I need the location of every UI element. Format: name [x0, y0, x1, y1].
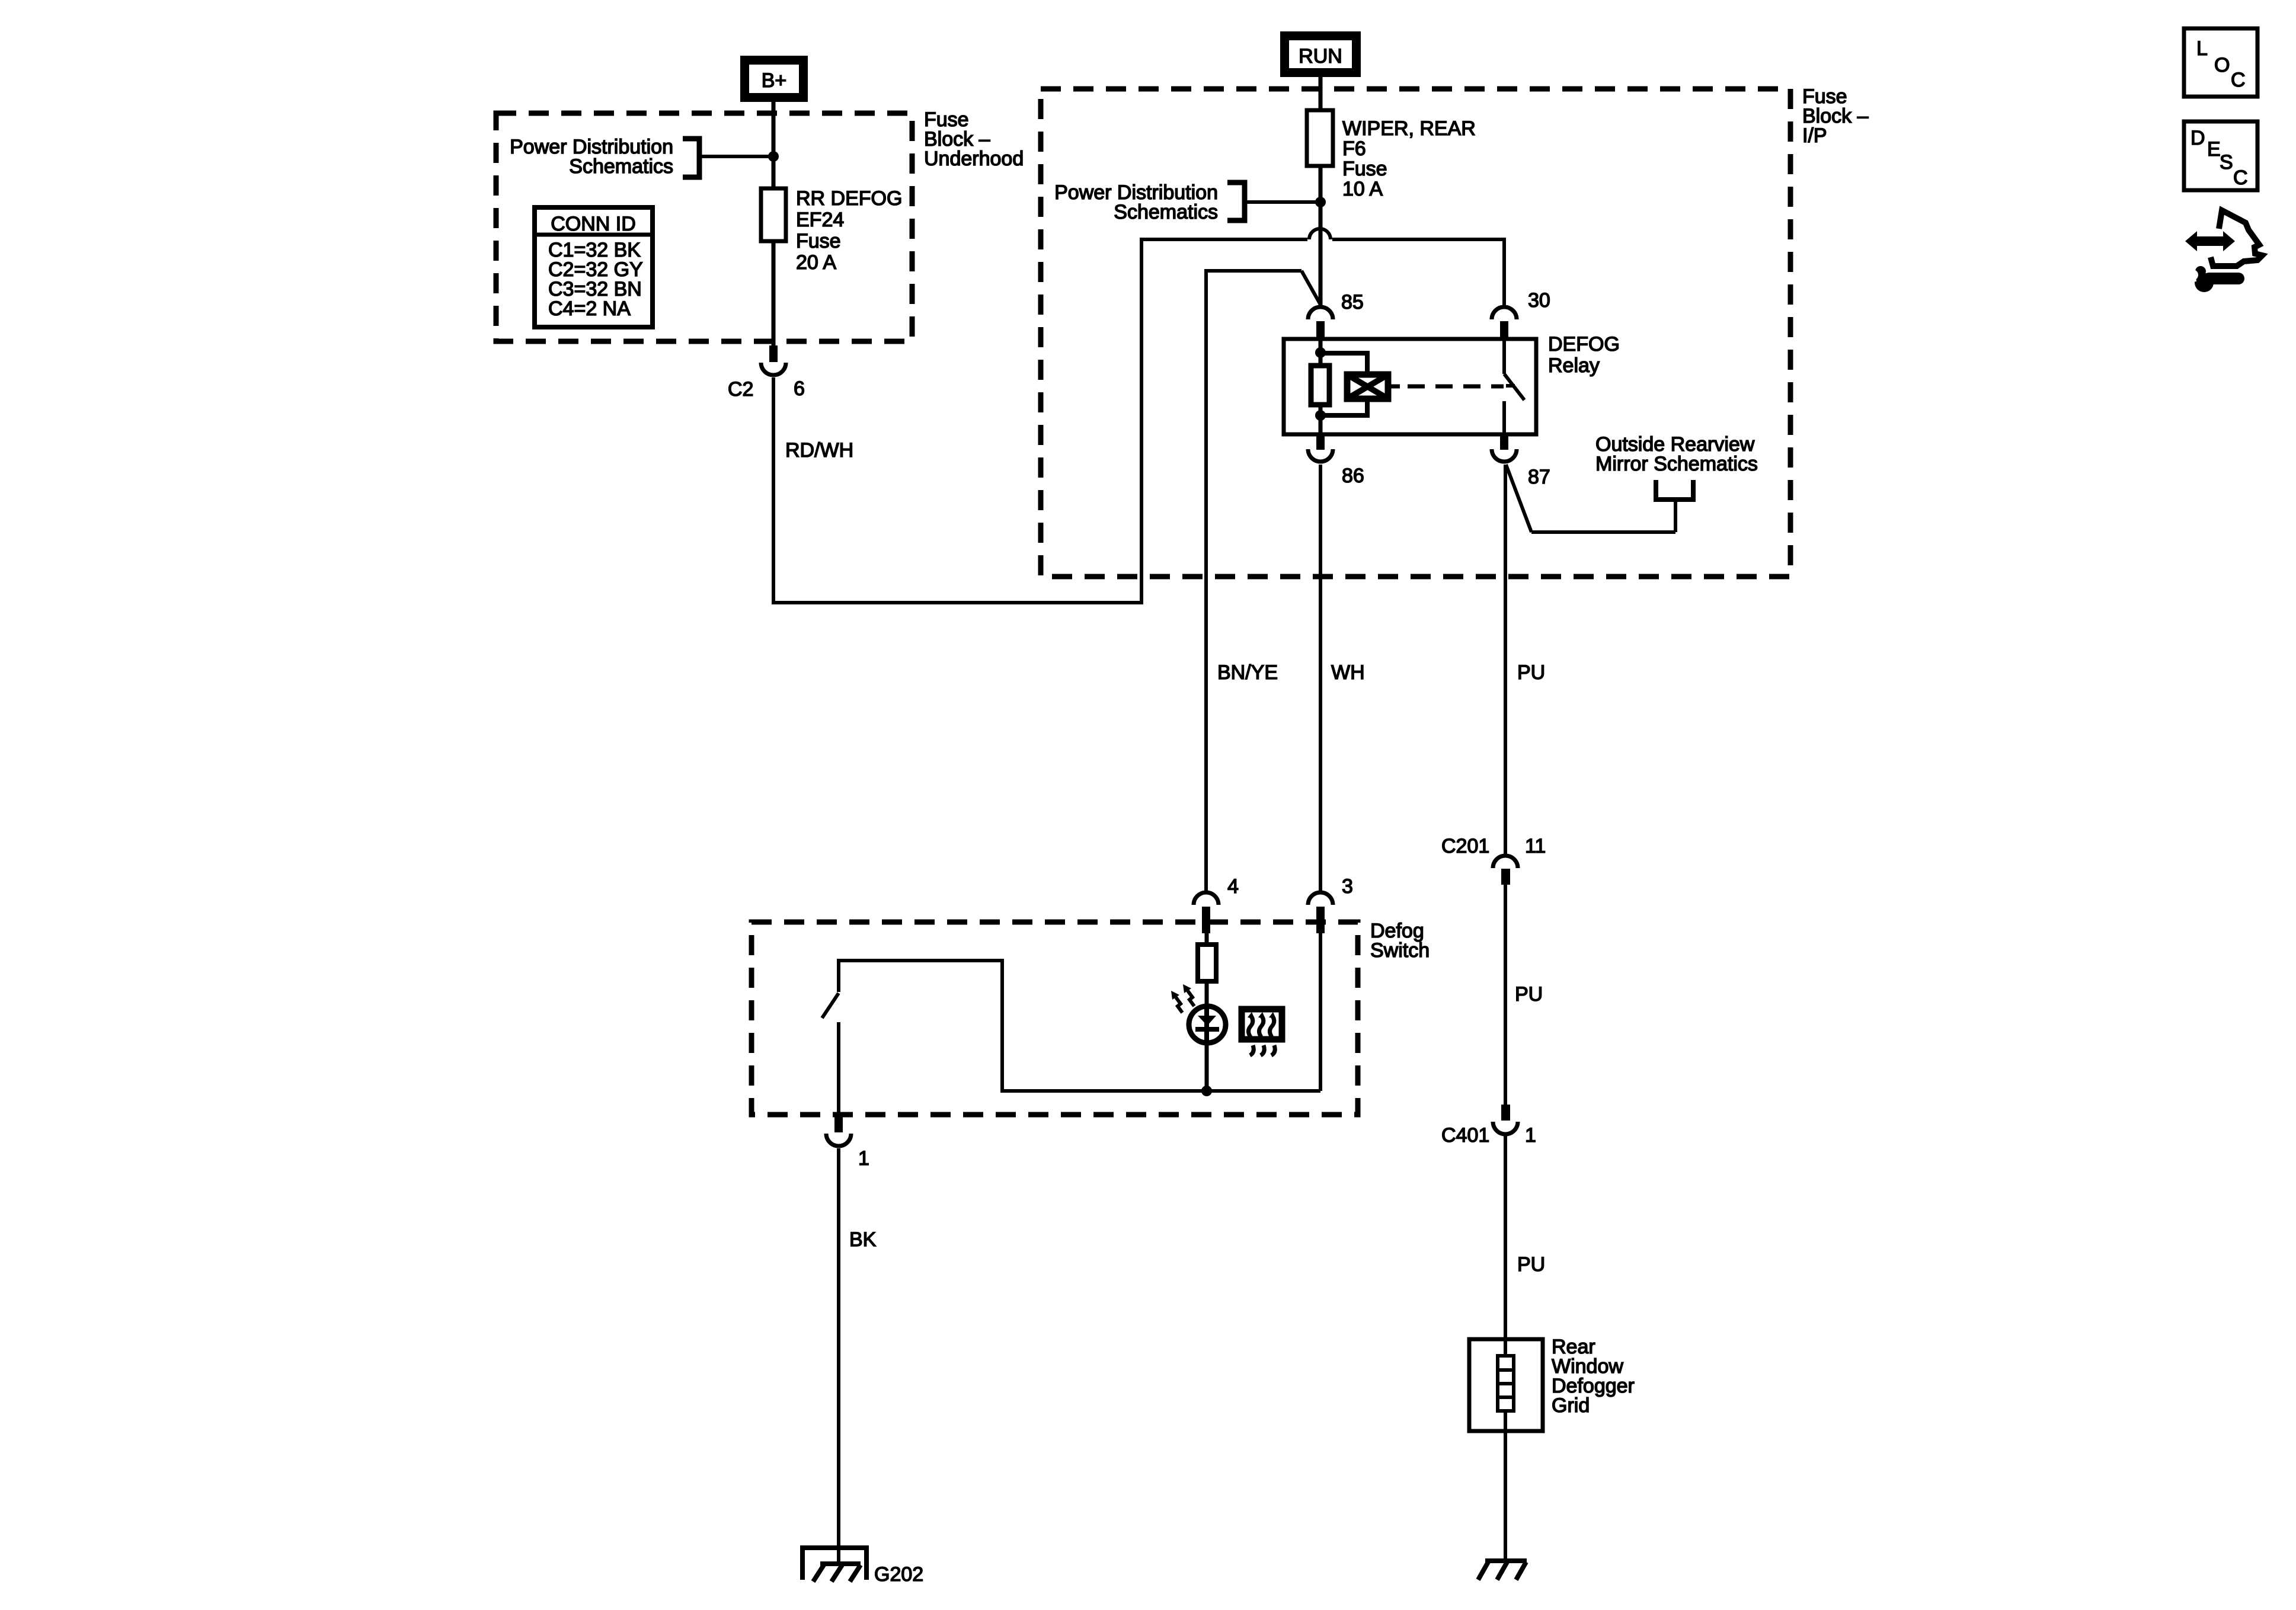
svg-text:C201: C201	[1441, 835, 1489, 857]
svg-text:RD/WH: RD/WH	[785, 439, 853, 462]
LOC icon box	[2184, 28, 2257, 97]
LED indicator	[1189, 1006, 1226, 1044]
relay coil box with X	[1346, 374, 1389, 399]
wire BN/YE down inside I/P box	[1204, 269, 1208, 892]
svg-text:B+: B+	[762, 69, 787, 92]
svg-text:4: 4	[1227, 875, 1239, 898]
svg-text:RUN: RUN	[1299, 45, 1342, 68]
wire bracket to RUN feed junction	[1245, 200, 1320, 204]
svg-text:EF24: EF24	[796, 209, 844, 231]
fuse EF24 label	[796, 187, 902, 274]
switch pin 4 female arc	[1194, 892, 1219, 905]
svg-text:F6: F6	[1342, 137, 1366, 160]
switch pin 3 female arc	[1308, 892, 1333, 905]
DESC icon box	[2184, 121, 2257, 190]
fuse EF24 RR DEFOG symbol	[761, 188, 786, 241]
node junction on RUN feed	[1315, 197, 1326, 207]
svg-text:BN/YE: BN/YE	[1217, 661, 1278, 684]
svg-text:30: 30	[1528, 289, 1550, 312]
svg-text:C: C	[2231, 69, 2246, 91]
svg-text:3: 3	[1342, 875, 1353, 898]
svg-text:6: 6	[794, 377, 805, 400]
svg-text:G202: G202	[874, 1563, 923, 1586]
power distribution schematics label (underhood)	[510, 136, 673, 178]
wire PU down to defogger grid	[1504, 1136, 1507, 1340]
svg-text:Schematics: Schematics	[569, 155, 673, 178]
connector C401 male stub	[1501, 1105, 1510, 1121]
svg-text:Fuse: Fuse	[1342, 158, 1387, 180]
relay pin 86 female arc	[1308, 449, 1333, 462]
fuse block I/P label	[1802, 85, 1869, 147]
svg-text:PU: PU	[1517, 661, 1545, 684]
svg-text:S: S	[2220, 151, 2233, 174]
svg-text:WH: WH	[1331, 661, 1365, 684]
ignition feed RUN box	[1280, 31, 1361, 77]
LED emission arrows	[1171, 984, 1194, 1013]
switch bottom rail junction	[1201, 1086, 1212, 1096]
svg-text:D: D	[2191, 127, 2205, 149]
relay switch fixed contact top	[1502, 339, 1506, 374]
relay node bottom	[1315, 410, 1326, 421]
relay pin 85 male stub	[1316, 321, 1325, 340]
fuse F6 label	[1342, 117, 1476, 200]
svg-text:O: O	[2214, 54, 2230, 76]
svg-text:C2: C2	[728, 378, 753, 401]
svg-text:PU: PU	[1515, 983, 1543, 1006]
switch bottom rail	[1002, 1089, 1320, 1093]
switch pin 1 female arc	[826, 1134, 851, 1146]
relay pin 86 male stub	[1316, 434, 1325, 450]
CONN ID table	[535, 207, 653, 327]
svg-text:PU: PU	[1517, 1253, 1545, 1276]
relay actuator dashed link	[1388, 385, 1400, 389]
svg-text:CONN ID: CONN ID	[551, 213, 636, 235]
svg-text:WIPER, REAR: WIPER, REAR	[1342, 117, 1476, 140]
ground (defogger grid)	[1478, 1561, 1527, 1580]
connector C401 female arc	[1493, 1122, 1518, 1134]
wire RD/WH bottom horizontal run	[772, 601, 1143, 604]
switch pin 1 male stub	[834, 1115, 843, 1132]
rear window defogger grid label	[1552, 1336, 1635, 1417]
switch pin 3 male stub	[1316, 907, 1325, 933]
relay coil branch wires	[1320, 353, 1367, 415]
svg-text:Fuse: Fuse	[796, 230, 841, 252]
svg-text:86: 86	[1342, 465, 1364, 487]
relay switch arm	[1504, 374, 1524, 400]
svg-text:20 A: 20 A	[796, 251, 836, 274]
fuse block underhood dashed box	[496, 113, 912, 341]
relay DEFOG box	[1284, 339, 1536, 434]
wire PU between C201 and C401	[1504, 885, 1507, 1106]
svg-text:10 A: 10 A	[1342, 178, 1383, 200]
relay pin 30 male stub	[1500, 321, 1508, 340]
relay pin 85 female arc	[1308, 307, 1333, 319]
svg-text:E: E	[2207, 138, 2221, 161]
wire contact top run	[837, 959, 1004, 962]
relay resistor bottom wire	[1319, 405, 1323, 434]
relay switch lower contact	[1502, 401, 1506, 434]
svg-text:L: L	[2196, 37, 2208, 60]
node junction on B+ feed	[768, 151, 779, 162]
wire rail up to switch contact	[1000, 959, 1004, 1093]
wire WH pin 86 down to switch pin 3	[1319, 465, 1322, 892]
battery feed B+ box	[740, 56, 808, 102]
wire bracket to B+ feed junction	[699, 155, 773, 158]
wire RD/WH down from C2-6	[772, 377, 775, 604]
svg-text:BK: BK	[849, 1228, 877, 1251]
switch pin 4 male stub	[1202, 907, 1210, 933]
defog switch dashed box	[752, 922, 1358, 1115]
defog switch lower contact	[837, 1022, 840, 1115]
defogger grid element ladder	[1498, 1340, 1514, 1431]
mirror schematics destination bracket	[1656, 480, 1693, 500]
svg-text:11: 11	[1525, 835, 1546, 857]
svg-text:C4=2 NA: C4=2 NA	[548, 297, 631, 320]
wire RD/WH top run to hop	[1140, 238, 1307, 241]
defog switch contact upper	[837, 961, 840, 992]
svg-text:I/P: I/P	[1802, 124, 1827, 147]
svg-text:DEFOG: DEFOG	[1548, 333, 1620, 356]
wire hop arc over RUN feed	[1309, 229, 1331, 239]
wire RUN box down to fuse F6	[1319, 77, 1323, 111]
service icon panel outline	[2211, 210, 2262, 266]
ground G202	[802, 1548, 866, 1582]
wire BK down to G202	[837, 1148, 840, 1565]
svg-text:Grid: Grid	[1552, 1394, 1590, 1417]
wire pin 3 down to rail	[1319, 933, 1322, 1091]
connector C2 pin 6 female arc	[761, 363, 786, 375]
outside rearview mirror schematics label	[1595, 433, 1758, 475]
relay node top	[1315, 347, 1326, 358]
defog switch label	[1370, 920, 1430, 962]
connector C2 pin 6 male stub	[769, 345, 778, 362]
switch LED resistor feed wire	[1205, 933, 1209, 946]
fuse F6 WIPER REAR symbol	[1307, 110, 1333, 166]
svg-text:85: 85	[1341, 291, 1364, 313]
relay pin 30 female arc	[1492, 307, 1517, 319]
wire BN/YE branch horizontal	[1204, 269, 1302, 273]
connector C201 male stub	[1501, 869, 1510, 885]
svg-text:Mirror Schematics: Mirror Schematics	[1595, 453, 1758, 475]
heater indicator symbol	[1242, 1009, 1282, 1055]
wire grid to ground	[1504, 1431, 1507, 1561]
power distribution schematics label (I/P)	[1054, 181, 1218, 223]
wire pin 87 branch diagonal to mirror circuit	[1506, 465, 1531, 532]
relay pin 87 female arc	[1492, 449, 1517, 462]
svg-text:Relay: Relay	[1548, 354, 1600, 377]
wire resistor to LED	[1205, 981, 1209, 1007]
wire down to relay pin 30	[1502, 238, 1506, 306]
svg-text:1: 1	[858, 1147, 869, 1170]
relay pin 87 male stub	[1500, 434, 1508, 450]
relay coil feed wire	[1319, 339, 1323, 367]
wire B+ box down to fuse EF24	[772, 102, 776, 190]
connector C201 female arc	[1493, 856, 1518, 868]
wire mirror branch up	[1674, 500, 1677, 532]
service icon wrench	[2183, 266, 2239, 292]
svg-text:Underhood: Underhood	[924, 148, 1024, 170]
wire BN/YE branch diagonal into pin 85	[1302, 271, 1320, 305]
bracket for power distribution schematics (I/P)	[1227, 183, 1245, 220]
defog switch arm	[822, 993, 839, 1018]
svg-text:Schematics: Schematics	[1114, 201, 1218, 223]
wire fuse EF24 down to connector C2	[772, 241, 776, 345]
svg-text:C: C	[2233, 167, 2248, 189]
wire fuse F6 down to relay pin 85	[1319, 166, 1323, 306]
wire mirror branch horizontal	[1531, 530, 1675, 534]
svg-text:Switch: Switch	[1370, 939, 1430, 962]
fuse block I/P dashed box	[1041, 89, 1790, 577]
wire RD/WH up into fuse block I/P	[1140, 238, 1143, 604]
switch resistor	[1198, 945, 1216, 981]
wire LED to bottom rail	[1205, 1044, 1209, 1091]
service icon double arrow	[2185, 231, 2235, 251]
bracket for power distribution schematics (underhood)	[683, 139, 699, 177]
relay resistor	[1311, 366, 1329, 405]
rear window defogger grid box	[1469, 1339, 1543, 1431]
svg-text:RR DEFOG: RR DEFOG	[796, 187, 902, 210]
relay label	[1548, 333, 1620, 377]
svg-text:1: 1	[1525, 1124, 1536, 1147]
wire RD/WH run to pin 30 corner	[1332, 238, 1506, 241]
wire PU pin 87 down to C201	[1504, 465, 1507, 854]
fuse block underhood label	[924, 108, 1024, 170]
svg-text:C401: C401	[1441, 1124, 1489, 1147]
svg-text:87: 87	[1528, 466, 1550, 488]
